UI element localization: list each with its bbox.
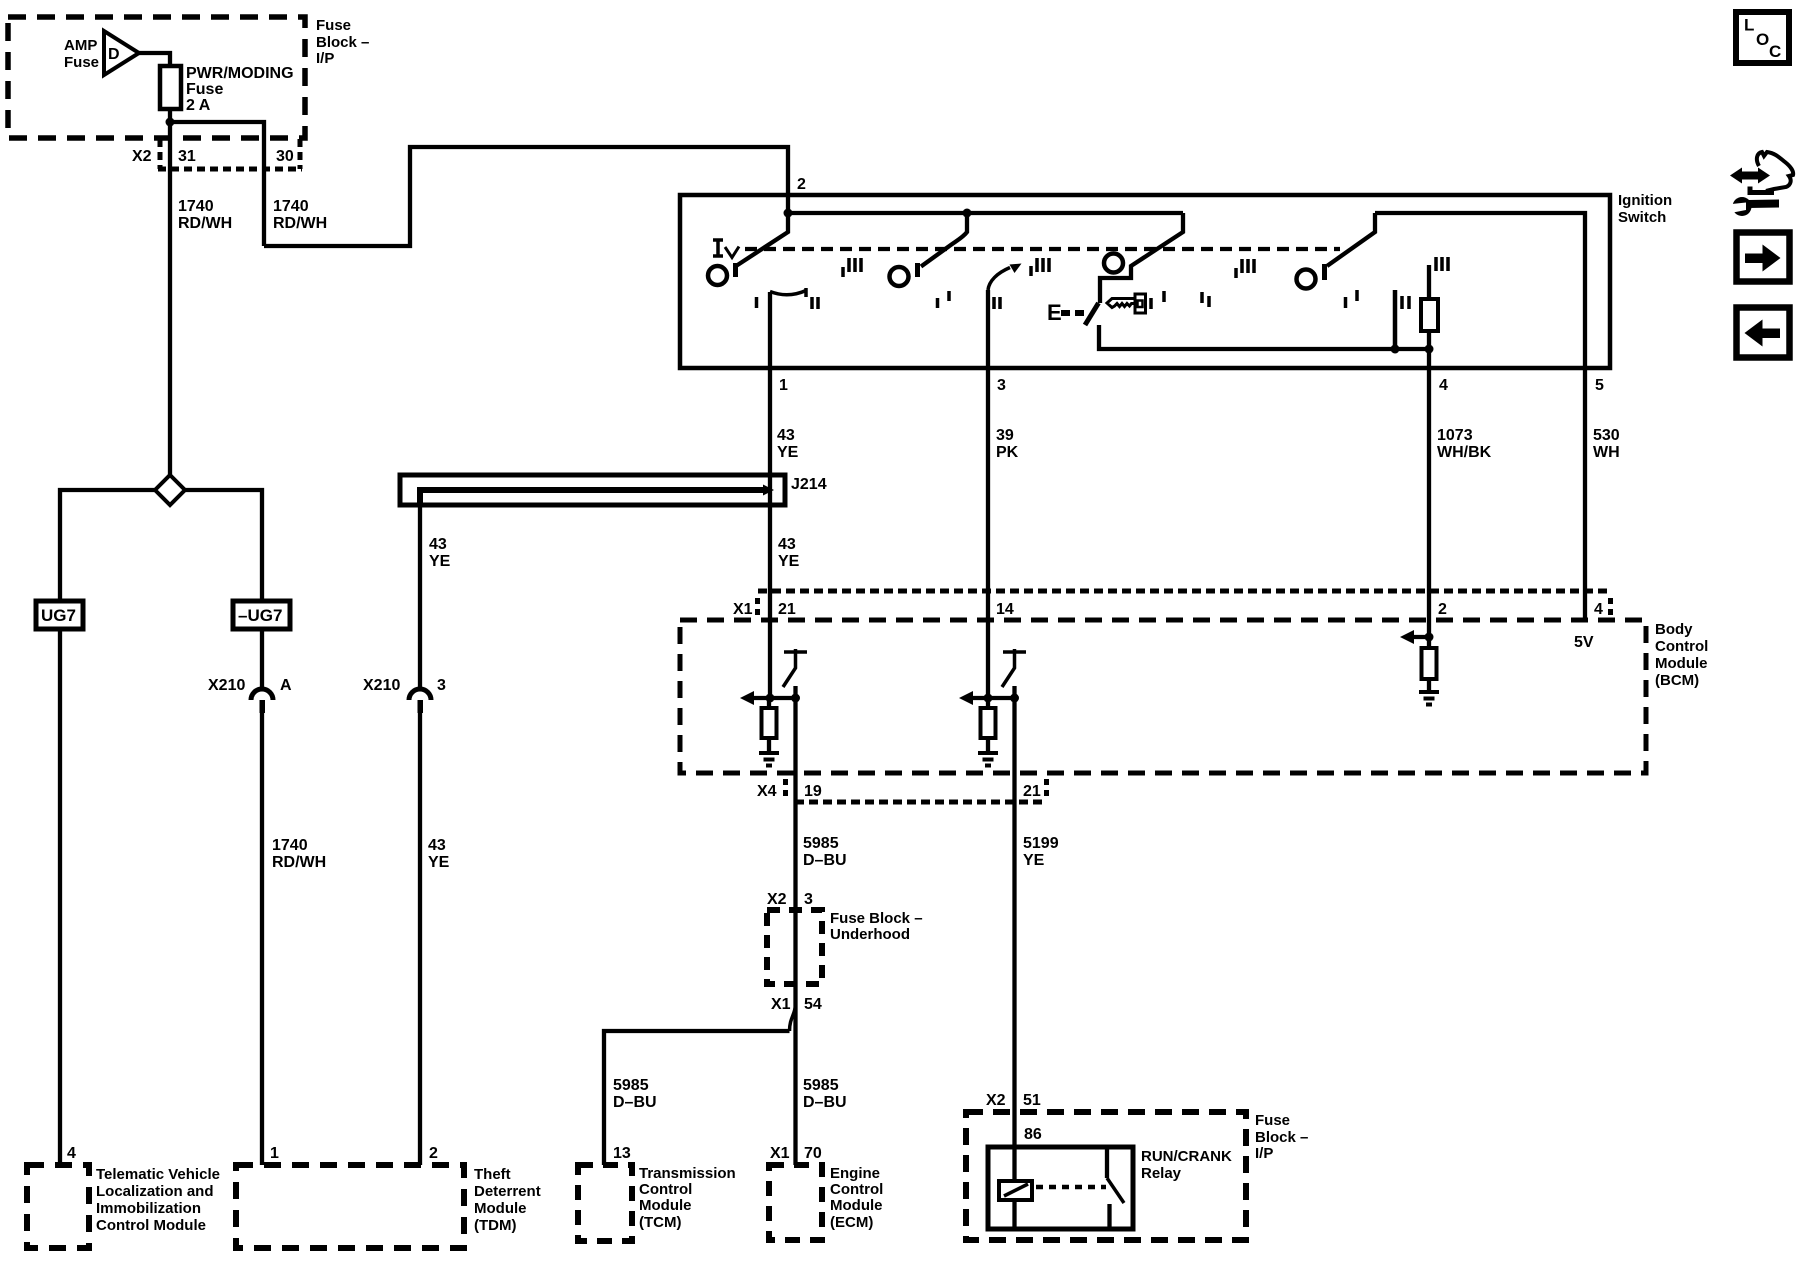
junction dot wire2 (984, 694, 993, 703)
svg-text:Control: Control (830, 1181, 883, 1198)
wire ignition pin4 to BCM 2 (1427, 368, 1431, 591)
svg-text:86: 86 (1024, 1126, 1042, 1143)
wire resistor1 bottom (767, 738, 771, 753)
BCM input wire pin2 (1427, 591, 1431, 648)
section C position I mark (1151, 291, 1164, 309)
relay actuator dotted line (1036, 1185, 1106, 1190)
svg-text:RD/WH: RD/WH (272, 854, 326, 871)
svg-text:4: 4 (1439, 377, 1448, 394)
junction dot 3 (1425, 633, 1434, 642)
svg-text:2: 2 (429, 1145, 438, 1162)
section B position I mark (938, 291, 950, 308)
svg-text:1073: 1073 (1437, 427, 1473, 444)
section D arm tick (1322, 264, 1327, 280)
svg-text:UG7: UG7 (41, 606, 76, 625)
fuse block I/P relay label (1255, 1112, 1308, 1162)
tools icon panel base (1750, 187, 1774, 193)
svg-text:Fuse: Fuse (316, 17, 351, 34)
svg-text:1: 1 (779, 377, 788, 394)
BCM input wire pin14 (986, 591, 990, 698)
svg-text:–UG7: –UG7 (238, 606, 282, 625)
svg-text:A: A (280, 677, 292, 694)
LOC icon box (1736, 12, 1789, 63)
5V label (1574, 634, 1594, 651)
section B wire to pin 3 (986, 290, 990, 368)
svg-text:Deterrent: Deterrent (474, 1183, 541, 1200)
BCM resistor 1 (762, 708, 777, 738)
BCM resistor 3 (1422, 648, 1437, 679)
J214 bus arrowhead (763, 485, 774, 496)
relay coil diagonal (1004, 1184, 1028, 1196)
wire 5985 D-BU label mid (803, 1077, 847, 1111)
svg-text:Module: Module (639, 1197, 692, 1214)
X4 colon right (1044, 779, 1049, 796)
connector X210 3 arc (409, 689, 431, 700)
junction dot on rail at pin4 (1425, 345, 1434, 354)
BCM label (1655, 621, 1708, 689)
svg-text:D–BU: D–BU (803, 1094, 847, 1111)
junction dot (166, 118, 175, 127)
svg-text:43: 43 (429, 536, 447, 553)
ECM X1 70 labels (770, 1145, 822, 1162)
section D switch arm (1327, 213, 1375, 266)
wire resistor3 bottom (1427, 679, 1431, 692)
section C pivot circle (1104, 254, 1123, 273)
svg-text:(ECM): (ECM) (830, 1214, 873, 1231)
svg-text:13: 13 (613, 1145, 631, 1162)
wire 43 YE label below J214 (778, 536, 800, 570)
TDM pin 1 label (270, 1145, 279, 1162)
svg-text:30: 30 (276, 148, 294, 165)
svg-text:YE: YE (428, 854, 450, 871)
option box UG7 (36, 601, 83, 629)
section C fixed contact to bottom rail (1099, 325, 1429, 349)
mechanical coupling dashed line (745, 247, 1340, 251)
section A spring-return symbol (713, 240, 739, 258)
svg-text:X2: X2 (986, 1092, 1006, 1109)
BCM arrow 3 (1400, 630, 1414, 644)
svg-text:1: 1 (270, 1145, 279, 1162)
wire UG7 to telematic module (58, 629, 62, 1165)
wire diamond right branch (185, 490, 262, 601)
section D pivot circle (1297, 270, 1316, 289)
svg-text:YE: YE (778, 553, 800, 570)
section B position III mark (1031, 258, 1049, 276)
svg-text:14: 14 (996, 601, 1014, 618)
AMP fuse D label (108, 46, 120, 63)
left arrow icon box (1737, 308, 1790, 358)
section B contact curve with arrow (988, 268, 1010, 291)
svg-text:2: 2 (1438, 601, 1447, 618)
BCM switch symbol 1 (783, 649, 807, 687)
wire branch to TCM (604, 1031, 790, 1165)
relay 86 label (1024, 1126, 1042, 1143)
ground symbol 3 (1419, 692, 1439, 705)
X4 colon left (783, 779, 788, 796)
svg-text:Immobilization: Immobilization (96, 1200, 201, 1217)
wire 530 WH label (1593, 427, 1620, 461)
ignition section C key switch arm (1100, 213, 1183, 303)
svg-text:YE: YE (1023, 852, 1045, 869)
svg-text:AMP: AMP (64, 37, 97, 54)
J214 label (791, 476, 827, 493)
section A position I mark (755, 297, 759, 308)
fuse PWR/MODING 2A (160, 66, 181, 109)
wire 39 PK label (996, 427, 1019, 461)
BCM dashed box (680, 620, 1646, 773)
svg-text:Switch: Switch (1618, 209, 1666, 226)
diamond splice (155, 475, 185, 505)
svg-text:RD/WH: RD/WH (178, 215, 232, 232)
BCM link line 2 (971, 696, 1015, 700)
svg-text:D–BU: D–BU (803, 852, 847, 869)
relay contact top (1105, 1147, 1109, 1178)
connector X210 A arc (251, 689, 273, 700)
fuse block underhood label (830, 910, 923, 943)
section A wire to pin 1 (768, 292, 772, 368)
BCM X1 connector dotted row (758, 589, 1611, 594)
AMP fuse triangle D (104, 31, 139, 75)
left arrow icon (1745, 320, 1781, 347)
wire coil to relay bottom (1012, 1200, 1016, 1229)
X1 row labels (733, 601, 1603, 618)
svg-text:1740: 1740 (272, 837, 308, 854)
resistor in ignition switch (1421, 299, 1438, 331)
svg-text:D–BU: D–BU (613, 1094, 657, 1111)
telematic module label (96, 1166, 220, 1234)
tools icon left arrowhead (1730, 168, 1742, 184)
section A pivot circle (708, 266, 727, 285)
relay coil (999, 1181, 1032, 1200)
svg-text:1740: 1740 (273, 198, 309, 215)
X210 A labels (208, 677, 292, 694)
svg-text:(TDM): (TDM) (474, 1217, 516, 1234)
section D position III label (1436, 257, 1448, 271)
svg-text:5V: 5V (1574, 634, 1594, 651)
svg-text:39: 39 (996, 427, 1014, 444)
junction dot wire1 (766, 694, 775, 703)
section D position II contact bar (1393, 290, 1398, 349)
svg-text:4: 4 (1594, 601, 1603, 618)
svg-text:530: 530 (1593, 427, 1620, 444)
wire 1073 WH/BK label (1437, 427, 1492, 461)
wire resistor2 bottom (986, 738, 990, 753)
svg-text:Underhood: Underhood (830, 926, 910, 943)
PWR/MODING fuse label (186, 65, 294, 114)
wire 5985 D-BU label left (613, 1077, 657, 1111)
wire diamond left branch (60, 490, 155, 601)
-UG7 label (238, 606, 282, 625)
svg-text:70: 70 (804, 1145, 822, 1162)
BCM output wire to pin21out (1012, 686, 1016, 1181)
wire ignition pin1 to BCM 21 (768, 368, 772, 591)
section B curve arrowhead (1010, 264, 1022, 274)
svg-text:2: 2 (797, 176, 806, 193)
section C key symbol (1107, 294, 1146, 313)
ECM label (830, 1165, 883, 1231)
section D position III contact wire (1427, 265, 1431, 299)
svg-text:O: O (1756, 30, 1769, 49)
relay contact arm (1107, 1178, 1124, 1203)
BCM arrow 2 (959, 691, 973, 705)
splice pack J214 box (400, 475, 785, 505)
wire -UG7 to X210 A (260, 629, 264, 690)
X4 row labels (757, 783, 1041, 800)
ground symbol 1 (759, 753, 779, 766)
wire 43 YE label left drop (429, 536, 451, 570)
svg-text:X1: X1 (771, 996, 791, 1013)
section A position II mark (812, 297, 818, 309)
svg-text:19: 19 (804, 783, 822, 800)
svg-text:Engine: Engine (830, 1165, 880, 1182)
svg-text:X2: X2 (132, 148, 152, 165)
section C E dashes (1061, 310, 1084, 316)
telematic module dashed box (27, 1165, 89, 1248)
svg-text:Telematic Vehicle: Telematic Vehicle (96, 1166, 220, 1183)
svg-text:Fuse: Fuse (64, 54, 99, 71)
wire 43 YE label above J214 (777, 427, 799, 461)
svg-text:Transmission: Transmission (639, 1165, 736, 1182)
wire 5985 D-BU label upper (803, 835, 847, 869)
junction dot on rail at II bar (1391, 345, 1400, 354)
wire junction to pin 30 drop (170, 122, 264, 246)
svg-text:2 A: 2 A (186, 97, 211, 114)
right arrow icon box (1737, 233, 1790, 282)
wire ignition pin3 to BCM 14 (986, 368, 990, 591)
svg-text:Fuse: Fuse (1255, 1112, 1290, 1129)
wire resistor2 top (986, 698, 990, 708)
svg-text:Control Module: Control Module (96, 1217, 206, 1234)
svg-text:Fuse: Fuse (186, 81, 223, 98)
right arrow icon (1745, 245, 1781, 272)
BCM link line 3 (1412, 635, 1429, 639)
wire resistor to pin 4 (1427, 331, 1431, 368)
ignition switch box (680, 195, 1610, 368)
X210 3 labels (363, 677, 446, 694)
fuse block I/P dashed box (8, 17, 305, 138)
wire ignition pin5 to BCM 4 (1583, 368, 1587, 620)
BCM resistor 2 (981, 708, 996, 738)
fuse block I/P label (316, 17, 369, 67)
wire 1740 RD/WH label right (273, 198, 327, 232)
ignition section B switch arm (921, 213, 967, 267)
RUN/CRANK relay label (1141, 1148, 1232, 1182)
svg-text:L: L (1744, 16, 1754, 35)
svg-text:I/P: I/P (1255, 1145, 1273, 1162)
option box -UG7 (233, 601, 290, 629)
svg-text:5985: 5985 (803, 835, 839, 852)
wire fuse bottom to junction (168, 109, 172, 122)
section D position II label (1402, 296, 1409, 309)
fuse block underhood dashed box (767, 910, 822, 984)
section D position I mark (1346, 290, 1358, 308)
wire pin30 to ignition switch pin 2 (264, 147, 788, 246)
ignition pin labels (779, 377, 1604, 394)
svg-text:RD/WH: RD/WH (273, 215, 327, 232)
X1 colon right (1608, 598, 1613, 615)
wire 1740 RD/WH label left (178, 198, 232, 232)
connector X2 pin labels (132, 148, 294, 165)
svg-text:21: 21 (778, 601, 796, 618)
ground symbol 2 (978, 753, 998, 766)
tools icon right arrowhead (1758, 168, 1770, 184)
TCM label (639, 1165, 736, 1231)
svg-text:31: 31 (178, 148, 196, 165)
svg-text:21: 21 (1023, 783, 1041, 800)
svg-text:WH/BK: WH/BK (1437, 444, 1492, 461)
connector X210 3 pin (418, 700, 424, 713)
svg-text:5: 5 (1595, 377, 1604, 394)
BCM output wire to pin19 (793, 686, 797, 1165)
X1 colon left (755, 598, 760, 615)
svg-text:Block –: Block – (1255, 1129, 1308, 1146)
junction dot out2 (1010, 694, 1019, 703)
RUN/CRANK relay box (988, 1147, 1133, 1229)
svg-text:X1: X1 (770, 1145, 790, 1162)
svg-text:PWR/MODING: PWR/MODING (186, 65, 294, 82)
ignition switch label (1618, 192, 1672, 226)
svg-text:43: 43 (428, 837, 446, 854)
ignition inner feed wire pin5 run (1375, 213, 1585, 368)
BCM input wire pin21 (768, 591, 772, 698)
svg-text:51: 51 (1023, 1092, 1041, 1109)
TDM pin 2 label (429, 1145, 438, 1162)
svg-text:Control: Control (639, 1181, 692, 1198)
connector X210 A pin (260, 700, 266, 713)
svg-text:4: 4 (67, 1145, 76, 1162)
tools icon wrench (1727, 197, 1779, 216)
svg-text:YE: YE (777, 444, 799, 461)
svg-text:Body: Body (1655, 621, 1693, 638)
svg-text:1740: 1740 (178, 198, 214, 215)
section A contact arc (770, 291, 806, 295)
svg-text:YE: YE (429, 553, 451, 570)
telematic pin 4 label (67, 1145, 76, 1162)
svg-text:Fuse Block –: Fuse Block – (830, 910, 923, 927)
svg-text:Module: Module (830, 1197, 883, 1214)
relay X2 51 labels (986, 1092, 1041, 1109)
J214 inner bus bar (420, 490, 766, 505)
svg-text:3: 3 (997, 377, 1006, 394)
BCM link line 1 (752, 696, 796, 700)
svg-text:C: C (1769, 42, 1781, 61)
svg-text:3: 3 (804, 891, 813, 908)
svg-text:5985: 5985 (613, 1077, 649, 1094)
wire resistor1 to ground (767, 698, 771, 708)
ignition section A switch arm (736, 213, 788, 266)
connector X2 row dotted (158, 139, 302, 169)
section C position II mark (1202, 292, 1209, 307)
svg-text:43: 43 (777, 427, 795, 444)
ECM dashed box (769, 1165, 822, 1240)
section D position III left mark (1236, 259, 1254, 278)
BCM X4 connector dotted row (795, 800, 1046, 805)
section A arc right tick (804, 288, 808, 297)
ignition pin 2 label (797, 176, 806, 193)
wire 1740 RD/WH label lower (272, 837, 326, 871)
junction dot section B (963, 209, 972, 218)
wire 43 YE label lower (428, 837, 450, 871)
relay contact bottom (1107, 1204, 1111, 1229)
svg-text:3: 3 (437, 677, 446, 694)
svg-text:X4: X4 (757, 783, 777, 800)
LOC icon letters (1744, 16, 1781, 62)
junction dot out1 (791, 694, 800, 703)
section A position III mark (843, 258, 861, 277)
svg-text:43: 43 (778, 536, 796, 553)
svg-text:5199: 5199 (1023, 835, 1059, 852)
svg-text:(TCM): (TCM) (639, 1214, 681, 1231)
svg-text:Ignition: Ignition (1618, 192, 1672, 209)
svg-text:54: 54 (804, 996, 822, 1013)
svg-text:J214: J214 (791, 476, 827, 493)
ignition inner feed wire pin2 run (788, 211, 1183, 215)
section C E position label (1047, 300, 1062, 325)
TDM label (474, 1166, 541, 1234)
fuse block underhood X2 3 labels (767, 891, 813, 908)
TCM pin 13 label (613, 1145, 631, 1162)
svg-text:5985: 5985 (803, 1077, 839, 1094)
svg-text:D: D (108, 46, 120, 63)
svg-text:I/P: I/P (316, 50, 334, 67)
fuse block I/P relay dashed box (966, 1112, 1246, 1240)
section B arm tick (915, 263, 920, 277)
wire pin31 down to diamond splice (168, 122, 172, 475)
TCM dashed box (578, 1165, 632, 1241)
BCM arrow 1 (740, 691, 754, 705)
wire X210 3 to TDM pin2 (418, 713, 422, 1165)
wire from AMP fuse to PWR/MODING fuse (139, 53, 170, 66)
section B position II mark (994, 297, 1000, 309)
svg-text:X1: X1 (733, 601, 753, 618)
tools icon double arrow (1737, 172, 1763, 180)
svg-text:X210: X210 (208, 677, 245, 694)
svg-text:X2: X2 (767, 891, 787, 908)
wire X210 A to TDM pin1 (260, 713, 264, 1165)
UG7 label (41, 606, 76, 625)
svg-text:Relay: Relay (1141, 1165, 1182, 1182)
wire 54 S-bend branch (790, 1005, 796, 1031)
svg-text:PK: PK (996, 444, 1019, 461)
wire J214 to X210-3 (418, 505, 422, 689)
svg-text:Module: Module (474, 1200, 527, 1217)
fuse block underhood X1 54 labels (771, 996, 822, 1013)
svg-text:Control: Control (1655, 638, 1708, 655)
svg-text:(BCM): (BCM) (1655, 672, 1699, 689)
section B pivot circle (890, 267, 909, 286)
svg-text:Theft: Theft (474, 1166, 511, 1183)
svg-text:E: E (1047, 300, 1062, 325)
section A arm tick (733, 263, 738, 277)
wire 5199 YE label (1023, 835, 1059, 869)
svg-text:Block –: Block – (316, 34, 369, 51)
svg-text:RUN/CRANK: RUN/CRANK (1141, 1148, 1232, 1165)
TDM dashed box (236, 1165, 464, 1248)
BCM switch symbol 2 (1002, 649, 1026, 687)
AMP Fuse label (64, 37, 99, 71)
svg-text:X210: X210 (363, 677, 400, 694)
section C moving contact arm (1085, 303, 1099, 325)
tools icon panel outline (1757, 152, 1793, 191)
svg-text:Localization and: Localization and (96, 1183, 214, 1200)
junction dot pin2 (784, 209, 793, 218)
svg-text:WH: WH (1593, 444, 1620, 461)
svg-text:Module: Module (1655, 655, 1708, 672)
